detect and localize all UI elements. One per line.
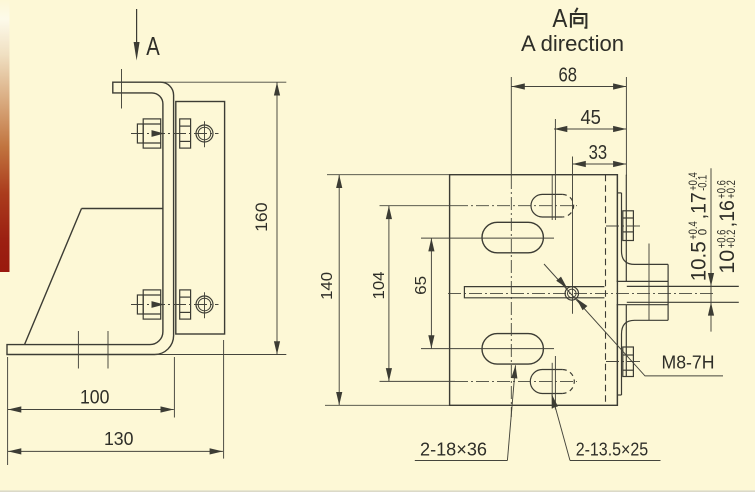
svg-text:+0.2: +0.2 [726, 180, 738, 199]
svg-text:0: 0 [697, 229, 709, 235]
svg-text:2-18×36: 2-18×36 [420, 439, 487, 460]
svg-text:,16: ,16 [715, 200, 739, 227]
svg-text:65: 65 [413, 276, 430, 295]
svg-text:A: A [146, 31, 160, 61]
svg-text:A direction: A direction [521, 31, 624, 56]
svg-text:10: 10 [715, 250, 739, 274]
svg-text:140: 140 [319, 272, 336, 300]
svg-text:160: 160 [253, 202, 271, 232]
svg-text:10.5: 10.5 [686, 241, 710, 281]
svg-text:-0.1: -0.1 [697, 175, 709, 191]
svg-text:104: 104 [371, 271, 388, 299]
svg-text:45: 45 [580, 106, 601, 129]
svg-text:M8-7H: M8-7H [662, 352, 715, 373]
svg-text:130: 130 [104, 428, 134, 449]
svg-text:,17: ,17 [686, 192, 710, 219]
svg-text:2-13.5×25: 2-13.5×25 [576, 439, 649, 460]
svg-text:100: 100 [80, 388, 110, 409]
svg-text:33: 33 [589, 141, 608, 164]
svg-text:+0.2: +0.2 [726, 230, 738, 249]
svg-text:68: 68 [559, 63, 578, 86]
svg-text:A: A [552, 5, 567, 33]
